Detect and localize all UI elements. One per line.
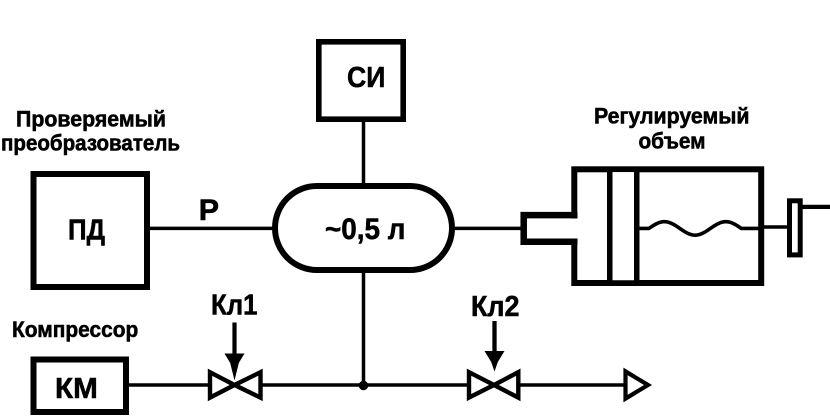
compressor box КМ bbox=[34, 360, 127, 413]
svg-text:~0,5 л: ~0,5 л bbox=[325, 213, 405, 246]
vent outlet triangle bbox=[626, 371, 649, 398]
wire chamber to bottom line bbox=[362, 269, 366, 386]
valve Кл1 bbox=[210, 372, 261, 397]
label Проверяемый преобразователь bbox=[1, 107, 180, 156]
valve Кл2 bbox=[469, 372, 518, 397]
svg-text:Кл2: Кл2 bbox=[471, 291, 520, 323]
measuring instrument box СИ bbox=[319, 42, 403, 119]
transducer box ПД bbox=[34, 174, 148, 287]
pipe opening gap bbox=[569, 219, 579, 239]
piston bbox=[610, 169, 637, 283]
arrow Кл1 bbox=[225, 323, 245, 381]
pipe connector bbox=[524, 215, 578, 242]
chamber vessel (stadium) bbox=[275, 186, 452, 270]
diaphragm wavy line bbox=[637, 222, 762, 235]
svg-text:ПД: ПД bbox=[68, 215, 105, 247]
svg-text:КМ: КМ bbox=[55, 373, 98, 405]
svg-text:преобразователь: преобразователь bbox=[1, 131, 180, 156]
junction node bbox=[359, 381, 368, 390]
wire chamber to pipe bbox=[451, 227, 523, 231]
rod wire bbox=[760, 225, 790, 229]
wire СИ to chamber bbox=[362, 118, 366, 188]
svg-text:Кл1: Кл1 bbox=[211, 290, 258, 322]
svg-text:объем: объем bbox=[639, 129, 706, 154]
end plug bbox=[790, 201, 801, 255]
output wire bbox=[801, 205, 830, 209]
wire ПД to chamber bbox=[147, 227, 276, 231]
svg-text:Проверяемый: Проверяемый bbox=[16, 107, 166, 132]
svg-text:Компрессор: Компрессор bbox=[12, 317, 138, 342]
cylinder (регулируемый объем) bbox=[574, 169, 761, 283]
wire Кл2 to vent bbox=[519, 383, 626, 387]
svg-text:Р: Р bbox=[199, 194, 219, 227]
wire КМ to valve Кл1 bbox=[124, 383, 210, 387]
label Регулируемый объем bbox=[594, 104, 750, 154]
wire Кл1 to Кл2 bbox=[259, 383, 470, 387]
svg-text:СИ: СИ bbox=[347, 62, 385, 94]
arrow Кл2 bbox=[485, 321, 505, 372]
svg-text:Регулируемый: Регулируемый bbox=[594, 104, 750, 129]
